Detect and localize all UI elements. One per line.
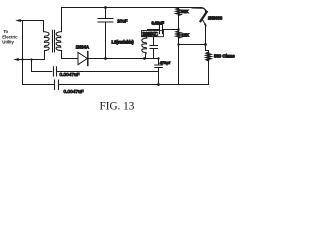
- capacitor C1 0.0047uF plates: [54, 67, 57, 76]
- wire 20uF upper lead: [105, 8, 107, 19]
- wire secondary bottom to diode: [62, 58, 79, 60]
- svg-text:560 Ohms: 560 Ohms: [214, 54, 235, 59]
- arrow AC terminal bottom: [13, 58, 18, 61]
- resistor R3 560 Ohms: [207, 52, 211, 60]
- svg-text:L1(variable): L1(variable): [112, 39, 135, 44]
- wire secondary bottom lead: [61, 51, 63, 59]
- svg-text:470pf: 470pf: [160, 60, 171, 65]
- wire L1 top lead: [146, 37, 148, 38]
- wire top-left AC terminal: [18, 20, 44, 22]
- wire emitter down: [205, 26, 207, 45]
- svg-text:Utility: Utility: [2, 40, 14, 45]
- wire 20uF lower lead: [105, 22, 107, 59]
- wire transformer primary top lead: [43, 21, 45, 32]
- svg-text:0.0047uF: 0.0047uF: [60, 72, 80, 77]
- svg-text:0.02uF: 0.02uF: [152, 21, 165, 26]
- slug box of L1 with marking: [142, 31, 164, 37]
- transformer T1 primary winding: [44, 32, 50, 51]
- node junction L1 bottom: [143, 57, 146, 60]
- wire box top to 0.02uF run: [148, 30, 160, 31]
- capacitor C5 0.02uF plates: [160, 25, 163, 34]
- node junction 470pF to bottom rail: [157, 83, 160, 86]
- wire R3 to bottom rail: [208, 59, 210, 84]
- svg-text:2N3638: 2N3638: [208, 16, 223, 21]
- wire drop to coupling cap C1: [32, 60, 52, 72]
- node junction top of 20uF: [104, 6, 107, 9]
- transformer T1 secondary winding: [56, 32, 61, 51]
- node junction at (31.5,59.5): [30, 58, 32, 60]
- svg-text:1N34A: 1N34A: [76, 44, 89, 49]
- wire 470pF bottom lead: [158, 68, 160, 85]
- svg-text:260IKC: 260IKC: [142, 32, 158, 38]
- wire 0.02uF to divider rail: [163, 29, 179, 31]
- svg-text:56K: 56K: [181, 9, 189, 14]
- wire 470pF top lead: [158, 59, 160, 65]
- svg-text:FIG. 13: FIG. 13: [100, 100, 135, 112]
- wire bottom rail left: [23, 84, 54, 86]
- diode D1 1N34A: [78, 52, 87, 64]
- svg-text:20uF: 20uF: [117, 19, 128, 24]
- wire emitter node to R3: [206, 45, 209, 53]
- resistor R1 56K: [176, 8, 180, 15]
- capacitor C3 20uF plates: [98, 19, 113, 23]
- wire bottom rail: [59, 84, 209, 86]
- inductor L1 winding: [142, 38, 147, 54]
- wire transformer primary bottom lead: [44, 51, 46, 60]
- wire rail to transistor emitter node: [179, 44, 206, 46]
- wire C1 to 470pF node: [57, 71, 159, 73]
- wire divider rail: [178, 8, 180, 85]
- wire tank cap top lead: [153, 37, 155, 46]
- node junction at (22.5,59.5): [21, 58, 23, 60]
- capacitor C4 tank plates: [150, 46, 158, 49]
- resistor R2 12K: [176, 31, 180, 38]
- wire diode cathode to tank bottom: [88, 58, 159, 60]
- arrow AC terminal top: [15, 19, 20, 22]
- transformer T1 core: [53, 30, 55, 52]
- wire secondary top lead up to top rail: [61, 8, 63, 32]
- capacitor C6 470pf plates: [155, 65, 163, 68]
- node junction rail/0.02uF: [177, 28, 179, 30]
- node junction rail/base wire: [177, 43, 179, 45]
- node junction emitter/base-bias: [204, 43, 207, 46]
- transistor Q1 2N3638: [192, 8, 206, 12]
- wire top rail: [62, 8, 206, 13]
- capacitor C2 0.0047uF plates: [55, 80, 59, 90]
- svg-text:0.0047uF: 0.0047uF: [64, 89, 84, 94]
- node junction tank corner: [157, 57, 159, 59]
- wire bottom-left AC terminal: [16, 59, 45, 61]
- svg-text:12K: 12K: [182, 32, 190, 37]
- wire tank cap bottom lead: [153, 49, 155, 59]
- wire L1 bottom lead: [145, 54, 147, 59]
- wire vertical from top terminal down to bottom rail: [22, 21, 24, 85]
- node junction 20uF bottom: [104, 57, 107, 60]
